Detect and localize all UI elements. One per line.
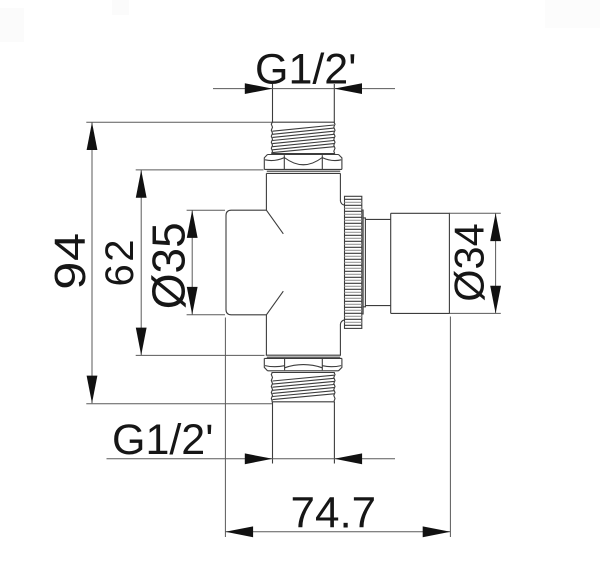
knurled wheel bbox=[345, 196, 362, 328]
dia35 arrows bbox=[187, 210, 198, 238]
faint scan artifacts top-left bbox=[0, 8, 24, 42]
top pipe stub / G1/2 extension lines bbox=[272, 84, 274, 122]
tube top edge bbox=[266, 172, 340, 174]
svg-text:G1/2': G1/2' bbox=[112, 416, 213, 464]
74.7 dimension bbox=[224, 318, 226, 538]
bottom spigot pipe bbox=[272, 402, 274, 464]
arrowheads bbox=[87, 83, 501, 537]
G1/2 top dimension line bbox=[213, 88, 395, 90]
svg-text:94: 94 bbox=[46, 232, 95, 289]
washer line under top nut bbox=[267, 170, 340, 172]
central tube left edge upper bbox=[265, 173, 267, 210]
G1/2 bottom arrows (outside, pointing inward) bbox=[245, 453, 273, 464]
74.7 arrows (inside, pointing out) bbox=[225, 526, 253, 537]
svg-text:74.7: 74.7 bbox=[291, 489, 377, 538]
ring A bbox=[362, 210, 363, 314]
top hex nut bbox=[264, 155, 342, 170]
ring B bbox=[363, 218, 365, 307]
valve body bump (left) bbox=[226, 210, 266, 315]
central tube right edge upper + fillet into knurl bbox=[340, 173, 344, 205]
bottom thread block bbox=[271, 373, 335, 402]
washer line above bottom nut bbox=[267, 356, 340, 358]
svg-text:62: 62 bbox=[98, 237, 142, 287]
svg-text:G1/2': G1/2' bbox=[255, 46, 356, 94]
dia34 arrows bbox=[490, 213, 501, 241]
mid cylinder bbox=[365, 219, 390, 305]
top thread block bbox=[271, 122, 335, 154]
interior chamfer diagonals bbox=[266, 210, 283, 234]
svg-text:Ø35: Ø35 bbox=[143, 222, 195, 309]
94 dimension bbox=[91, 122, 93, 403]
G1/2 bottom dimension bbox=[107, 458, 396, 460]
dia 35 dimension bbox=[191, 210, 193, 314]
central tube left edge lower bbox=[265, 315, 267, 355]
62 arrows bbox=[136, 170, 147, 198]
G1/2 top arrows (outside, pointing inward) bbox=[245, 83, 273, 94]
62 dimension bbox=[140, 170, 142, 355]
bottom hex nut bbox=[264, 358, 342, 370]
dia 34 dimension bbox=[495, 213, 497, 313]
tube bottom edge bbox=[266, 354, 341, 356]
cap (right cylinder) bbox=[391, 213, 450, 313]
94 arrows (inside, pointing out) bbox=[87, 122, 98, 150]
svg-text:Ø34: Ø34 bbox=[445, 223, 492, 301]
central tube right edge lower + fillet from knurl bbox=[340, 320, 344, 355]
